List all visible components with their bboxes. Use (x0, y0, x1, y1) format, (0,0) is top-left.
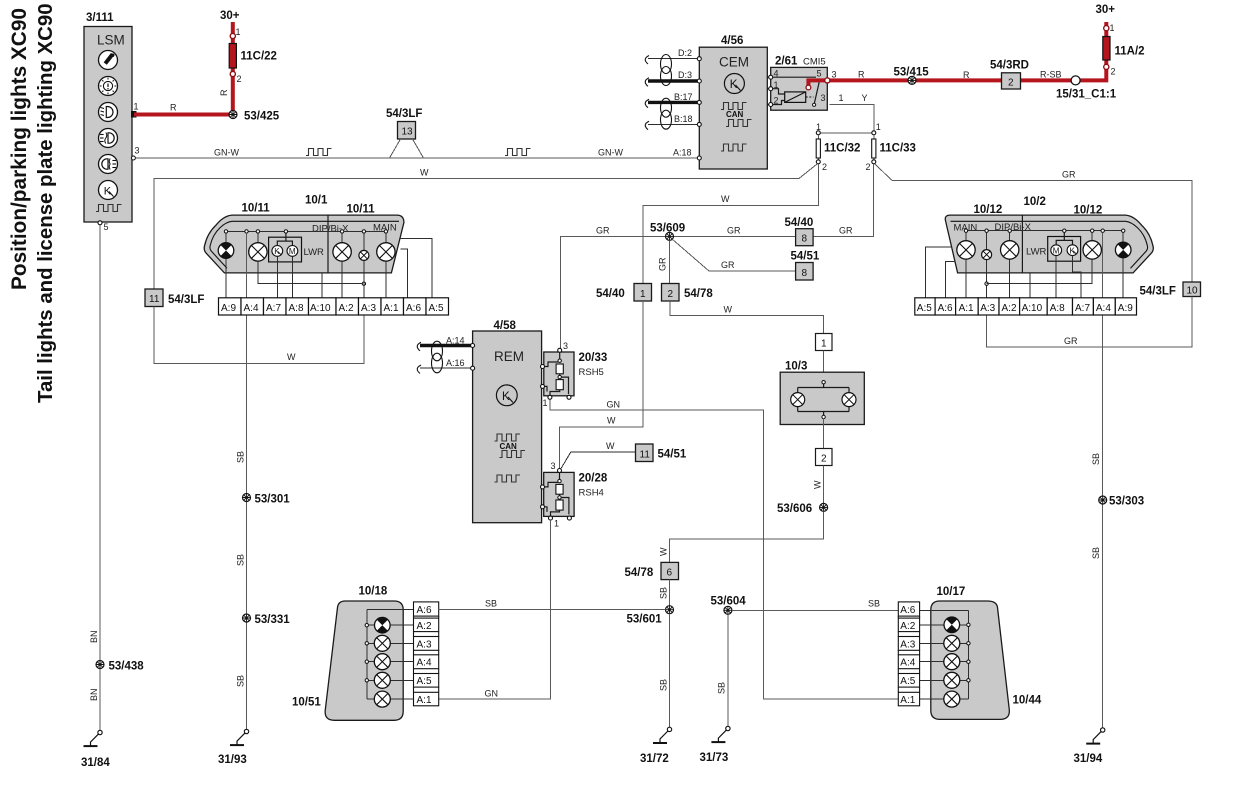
svg-text:D:3: D:3 (678, 70, 692, 80)
svg-text:R: R (219, 89, 229, 96)
LSM icon: low beam (99, 103, 118, 122)
svg-text:CMI5: CMI5 (803, 57, 826, 68)
wire GR (10 to A:3 right) (987, 297, 1192, 347)
connector 8 54/51 (791, 251, 820, 281)
svg-text:A:1: A:1 (959, 303, 974, 314)
ground 31/84 (81, 730, 110, 769)
twisted pair A:14/A:16 (417, 336, 474, 374)
supply 30+ left (220, 10, 240, 22)
svg-text:5: 5 (104, 222, 109, 232)
svg-text:53/609: 53/609 (650, 223, 685, 235)
rear left connector stack (414, 602, 439, 706)
svg-text:1: 1 (236, 27, 241, 37)
node on A:3 wire (362, 282, 365, 285)
position lamp (to A:9) (218, 233, 234, 298)
rear right connector stack (898, 602, 919, 706)
rear right lamp (A:4) (920, 654, 967, 670)
svg-text:A:5: A:5 (429, 303, 444, 314)
wire W to A:3 left (154, 307, 364, 364)
svg-text:10/2: 10/2 (1024, 196, 1046, 208)
rear left lamp (A:4) (369, 654, 414, 670)
svg-text:31/72: 31/72 (640, 753, 669, 765)
svg-text:11C/33: 11C/33 (880, 143, 916, 155)
svg-text:10/12: 10/12 (974, 204, 1003, 216)
connector 15/31_C1:1 (1056, 76, 1117, 101)
connector 2 54/3RD (990, 60, 1062, 90)
svg-text:A:9: A:9 (1118, 303, 1133, 314)
svg-text:R: R (963, 70, 970, 80)
svg-text:A:4: A:4 (900, 658, 915, 669)
connector 11 54/51 (636, 444, 687, 462)
svg-text:A:1: A:1 (417, 695, 432, 706)
svg-text:54/3RD: 54/3RD (990, 60, 1029, 72)
svg-text:GR: GR (839, 226, 853, 236)
side lamp small right (to A:3) (982, 232, 992, 297)
svg-text:BN: BN (89, 688, 99, 701)
svg-text:53/331: 53/331 (255, 614, 291, 626)
LSM icon: front fog (99, 129, 118, 148)
LSM icon: K (99, 181, 118, 200)
connector row 10/1 left (219, 298, 449, 315)
svg-text:3: 3 (563, 341, 568, 351)
svg-text:2: 2 (668, 289, 674, 300)
svg-text:W: W (813, 480, 823, 489)
wire GR (fuse 11C/33 to right rail) (875, 164, 892, 181)
lamp bus right cluster (964, 229, 1125, 232)
svg-text:10/51: 10/51 (292, 697, 321, 709)
svg-text:Position/parking lights XC90: Position/parking lights XC90 (8, 8, 31, 290)
connector 6 54/78 (625, 562, 679, 579)
svg-text:10/1: 10/1 (305, 195, 328, 207)
wire SB (splice 53/604 to rear right A:6) (732, 599, 898, 611)
svg-text:W: W (721, 194, 730, 204)
svg-text:SB: SB (659, 679, 669, 691)
splice 53/606 (777, 503, 828, 515)
fuse 11A/2 (1103, 23, 1145, 77)
svg-text:SB: SB (1091, 453, 1101, 465)
svg-text:K: K (730, 79, 738, 91)
fuse 11C/32 (816, 122, 860, 172)
svg-text:W: W (659, 547, 669, 556)
svg-text:A:3: A:3 (361, 303, 376, 314)
svg-text:11: 11 (149, 294, 160, 305)
svg-text:GN-W: GN-W (598, 148, 623, 158)
resistor unit 20/33 RSH5 (541, 341, 608, 408)
splice 53/415 (894, 67, 930, 85)
svg-text:GR: GR (1062, 170, 1076, 180)
fuse 11C/22 (229, 27, 277, 84)
wire GR (splice to connector 8 54/51) (673, 239, 796, 271)
splice 53/331 (243, 614, 291, 626)
rear left position lamp (A:2) (369, 617, 414, 633)
svg-text:B:17: B:17 (674, 92, 693, 102)
main lamp (to A:1) (377, 233, 395, 298)
wire W (fuse 11C/32 to rail) (799, 164, 817, 179)
rear left lamp (A:5) (369, 672, 414, 688)
svg-text:A:4: A:4 (1096, 303, 1111, 314)
svg-text:A:16: A:16 (446, 358, 465, 368)
control module 4/58 REM (473, 320, 542, 523)
control module 4/56 CEM (699, 35, 767, 169)
connector 11 54/3LF (145, 289, 204, 307)
svg-text:2: 2 (1111, 67, 1116, 77)
svg-text:3: 3 (551, 461, 556, 471)
svg-text:CAN: CAN (726, 110, 744, 119)
wire A:5 stub (400, 238, 432, 297)
svg-text:31/93: 31/93 (218, 754, 247, 766)
svg-text:10/18: 10/18 (359, 586, 388, 598)
svg-text:54/51: 54/51 (658, 449, 687, 461)
svg-text:GR: GR (1064, 336, 1078, 346)
svg-text:1: 1 (839, 93, 844, 103)
connector row 10/2 right (915, 298, 1137, 315)
main lamp right (to A:1) (957, 232, 975, 297)
wire A:6 stub (401, 249, 408, 298)
twisted pair D:2/D:3 (645, 48, 701, 86)
LSM pin 3 (131, 146, 139, 161)
svg-text:M: M (1053, 246, 1060, 255)
svg-text:4/58: 4/58 (494, 320, 517, 332)
rear right lamp (A:5) (920, 672, 967, 688)
lamp bus left cluster (224, 230, 387, 233)
svg-text:30+: 30+ (1096, 4, 1116, 16)
wire GN (RSH5 to rear right A:1) (550, 399, 898, 699)
headlamp unit 10/1 left (10/11 sections) (204, 195, 404, 273)
wire W (connector 1 to RSH4) (560, 301, 643, 469)
rear left lamp bus (365, 610, 368, 700)
splice 53/438 (96, 661, 144, 673)
wire GR right rail (892, 170, 1192, 283)
svg-text:A:8: A:8 (1050, 303, 1065, 314)
svg-text:A:6: A:6 (938, 303, 953, 314)
svg-text:A:3: A:3 (900, 639, 915, 650)
svg-text:53/606: 53/606 (777, 503, 812, 515)
svg-text:31/73: 31/73 (700, 752, 729, 764)
svg-text:10/11: 10/11 (347, 204, 376, 216)
svg-text:54/40: 54/40 (785, 217, 814, 229)
license plate lamp 10/3 (780, 361, 864, 425)
wire A:5 right stub (926, 247, 952, 298)
svg-text:RSH4: RSH4 (579, 488, 604, 499)
resistor unit 20/28 RSH4 (541, 461, 608, 529)
svg-text:10/3: 10/3 (785, 361, 807, 373)
splice 53/303 (1099, 496, 1144, 508)
svg-text:13: 13 (402, 127, 414, 138)
svg-text:53/303: 53/303 (1109, 496, 1144, 508)
svg-text:20/28: 20/28 (579, 473, 608, 485)
svg-text:GN: GN (607, 400, 621, 410)
svg-text:R-SB: R-SB (1040, 70, 1062, 80)
svg-text:A:4: A:4 (417, 658, 432, 669)
svg-text:REM: REM (494, 349, 524, 364)
ground 31/73 (700, 726, 731, 764)
wire GR (RSH5 to fuse 11C/33) (561, 164, 874, 349)
svg-text:D:2: D:2 (678, 48, 692, 58)
LSM icon: rear fog (99, 155, 118, 174)
connector 1 (10/3 top) (816, 334, 833, 351)
svg-text:2/61: 2/61 (775, 56, 798, 68)
wire (10/3 to connector 2) (823, 419, 825, 449)
splice 53/601 (627, 606, 674, 626)
svg-text:CAN: CAN (500, 442, 518, 451)
svg-text:53/601: 53/601 (627, 614, 663, 626)
svg-text:2: 2 (1008, 78, 1014, 89)
splice 53/425 (229, 111, 280, 123)
svg-text:M: M (289, 247, 296, 256)
rear right connector labels (900, 605, 915, 706)
connector 10 54/3LF (1140, 282, 1201, 298)
svg-text:11C/22: 11C/22 (241, 51, 277, 63)
connector 2 54/78 (662, 284, 714, 302)
wire SB (splice 53/601 to ground 31/72) (659, 614, 670, 728)
LSM icon: bulb (99, 77, 118, 96)
CEM pin A:18 (673, 148, 701, 161)
rear right lamp (A:3) (920, 635, 967, 651)
title: Tail lights and license plate lighting XC90 (35, 3, 57, 403)
svg-text:SB: SB (868, 599, 880, 609)
svg-text:2: 2 (866, 162, 871, 172)
connector 8 54/40 (785, 217, 814, 246)
svg-text:SB: SB (236, 451, 246, 463)
connector pin labels right (917, 303, 1133, 314)
svg-text:1: 1 (134, 102, 139, 112)
rear lamp unit 10/17 / 10/44 right (931, 586, 1042, 719)
splice 53/301 (243, 494, 291, 506)
connector 2 (10/3 bottom) (816, 449, 833, 466)
wire M to A:8 right (1055, 256, 1057, 298)
node on A:3 wire right (985, 282, 988, 285)
wire M to A:8 (291, 256, 293, 298)
connector pin labels left (221, 303, 444, 314)
svg-text:W: W (606, 441, 615, 451)
svg-text:54/78: 54/78 (684, 288, 713, 300)
LSM icon: position light (99, 51, 118, 70)
svg-text:1: 1 (816, 122, 821, 132)
wire R (relay to fuse 11A/2) (806, 22, 1106, 90)
svg-text:11A/2: 11A/2 (1115, 46, 1145, 58)
svg-text:A:9: A:9 (221, 303, 236, 314)
svg-text:K: K (104, 186, 112, 198)
svg-text:K: K (1070, 246, 1076, 255)
svg-text:SB: SB (236, 675, 246, 687)
svg-text:8: 8 (802, 268, 808, 279)
splice 53/609 (650, 223, 685, 241)
svg-text:20/33: 20/33 (579, 352, 608, 364)
LSM pin 5 (98, 221, 109, 232)
svg-text:54/51: 54/51 (791, 251, 820, 263)
svg-text:B:18: B:18 (674, 114, 693, 124)
svg-text:LWR: LWR (304, 247, 325, 258)
svg-text:A:1: A:1 (900, 695, 915, 706)
wire W (connector 2 to splice 53/606) (813, 466, 824, 504)
svg-text:10/11: 10/11 (242, 203, 271, 215)
svg-text:CEM: CEM (719, 55, 749, 70)
svg-text:GR: GR (721, 260, 735, 270)
svg-text:A:3: A:3 (980, 303, 995, 314)
svg-text:SB: SB (236, 554, 246, 566)
svg-text:K: K (502, 391, 510, 403)
wire SB (splice 53/604 to ground 31/73) (717, 614, 728, 726)
wire SB right (A:4 down to ground 31/94) (1091, 316, 1103, 729)
svg-text:W: W (420, 168, 429, 178)
wire R (LSM pin1 to splice 53/425) (134, 103, 233, 115)
wire SB (rear left A:6 to splice 53/601) (439, 599, 666, 610)
svg-text:6: 6 (667, 568, 673, 579)
wire W rail (154, 168, 799, 364)
wire W (RSH4 to connector 11 54/51) (561, 441, 636, 469)
svg-text:2: 2 (822, 162, 827, 172)
svg-text:54/78: 54/78 (625, 567, 654, 579)
svg-text:A:2: A:2 (417, 621, 432, 632)
relay 2/61 CMI5 (767, 56, 827, 111)
rear right bus-to-A6 wire (920, 610, 969, 612)
svg-text:W: W (724, 305, 733, 315)
LSM pin 1 (131, 102, 139, 118)
svg-text:W: W (287, 352, 296, 362)
rear right lamp bus (967, 611, 970, 699)
ground 31/94 (1074, 728, 1105, 765)
svg-text:GN-W: GN-W (214, 148, 239, 158)
svg-text:15/31_C1:1: 15/31_C1:1 (1056, 89, 1117, 101)
svg-text:A:7: A:7 (266, 303, 281, 314)
wire GR (splice to connector 2 54/78) (658, 240, 670, 283)
svg-text:LSM: LSM (97, 33, 125, 48)
svg-text:SB: SB (717, 682, 727, 694)
svg-text:54/40: 54/40 (596, 288, 625, 300)
wire W (splice 53/606 to connector 6 54/78) (659, 511, 824, 562)
svg-text:LWR: LWR (1026, 247, 1047, 258)
svg-text:A:14: A:14 (446, 336, 465, 346)
svg-text:53/301: 53/301 (255, 494, 291, 506)
wire SB (connector 6 to splice 53/601) (659, 580, 670, 606)
park lamp (to A:3 link) (249, 233, 364, 284)
svg-text:BN: BN (89, 630, 99, 643)
svg-text:10/44: 10/44 (1013, 695, 1042, 707)
wire A:4 right direct (1102, 232, 1104, 297)
rear right position lamp (A:2) (920, 617, 967, 633)
svg-text:A:2: A:2 (900, 621, 915, 632)
svg-text:A:1: A:1 (384, 303, 399, 314)
svg-text:GR: GR (596, 226, 610, 236)
svg-text:W: W (607, 416, 616, 426)
LWR unit right (M/K) (1026, 232, 1081, 261)
svg-text:A:5: A:5 (900, 676, 915, 687)
control module 3/111 LSM (84, 12, 132, 222)
svg-text:GN: GN (485, 689, 499, 699)
ground 31/72 (640, 727, 672, 765)
svg-text:GR: GR (727, 226, 741, 236)
svg-text:A:3: A:3 (417, 639, 432, 650)
wire divider to A:10 right (1029, 273, 1031, 298)
svg-text:53/438: 53/438 (109, 661, 145, 673)
wire to lamp 10/3 (823, 351, 825, 383)
dip lamp right (to A:2) (1001, 232, 1019, 297)
svg-text:DIP/Bi-X: DIP/Bi-X (995, 222, 1032, 233)
svg-text:1: 1 (554, 519, 559, 529)
svg-text:3/111: 3/111 (86, 12, 114, 24)
svg-text:53/604: 53/604 (711, 596, 747, 608)
twisted pair B:17/B:18 (645, 92, 701, 130)
svg-text:5: 5 (817, 69, 822, 79)
wire W (connector 2 54/78 to lamp 10/3) (670, 301, 824, 334)
rear left lamp (A:3) (369, 635, 414, 651)
svg-text:1: 1 (640, 289, 646, 300)
svg-text:A:10: A:10 (1022, 303, 1043, 314)
title: Position/parking lights XC90 (8, 8, 31, 290)
svg-text:SB: SB (1091, 547, 1101, 559)
rear left connector labels (417, 605, 432, 706)
wire SB (left cluster A:4 down) (236, 316, 247, 730)
wire GN-W (LSM pin3 to CEM A:18) (135, 148, 699, 159)
connector 13 54/3LF (386, 108, 424, 158)
svg-text:A:6: A:6 (417, 605, 432, 616)
svg-text:4/56: 4/56 (721, 35, 743, 47)
rear right lamp (A:1) (920, 691, 969, 707)
svg-text:10/17: 10/17 (937, 586, 966, 598)
svg-text:A:4: A:4 (244, 303, 259, 314)
wire K to A:7 (276, 256, 278, 298)
wire A:6 right stub (945, 261, 955, 297)
svg-text:10: 10 (1187, 286, 1199, 297)
wire A:4 direct (246, 233, 248, 298)
park lamp right (to A:3 link) (987, 232, 1102, 283)
svg-text:SB: SB (485, 599, 497, 609)
svg-text:31/94: 31/94 (1074, 753, 1103, 765)
splice 53/604 (711, 596, 747, 615)
svg-text:A:18: A:18 (673, 148, 692, 158)
wire K to A:7 right (1073, 256, 1082, 298)
svg-text:A:6: A:6 (406, 303, 421, 314)
wire GN (RSH4 to rear left A:1) (439, 520, 551, 699)
svg-text:31/84: 31/84 (81, 757, 110, 769)
headlamp unit 10/2 right (10/12 sections) (945, 196, 1153, 273)
svg-text:3: 3 (821, 93, 826, 103)
svg-text:R: R (858, 70, 865, 80)
svg-text:A:7: A:7 (1075, 303, 1090, 314)
position lamp right (to A:9) (1115, 232, 1131, 297)
svg-text:A:2: A:2 (339, 303, 354, 314)
svg-text:R: R (170, 103, 177, 113)
svg-text:8: 8 (802, 234, 808, 245)
svg-text:53/425: 53/425 (244, 111, 280, 123)
dip lamp (to A:2) (333, 233, 351, 298)
wire W (fuse 11C/32 to connector 1 54/40) (643, 164, 819, 284)
fuse 11C/33 (866, 122, 916, 172)
svg-text:11: 11 (640, 450, 651, 461)
svg-text:A:5: A:5 (417, 676, 432, 687)
svg-text:53/415: 53/415 (894, 67, 930, 79)
rear lamp unit 10/18 / 10/51 left (292, 586, 403, 721)
wire BN (LSM pin5 to ground 31/84) (89, 225, 100, 730)
svg-text:1: 1 (543, 398, 548, 408)
wire Y (relay to fuses) (818, 93, 874, 133)
svg-text:A:2: A:2 (1002, 303, 1017, 314)
wire divider to A:10 (321, 273, 323, 298)
supply 30+ right (1096, 4, 1116, 16)
svg-text:A:5: A:5 (917, 303, 932, 314)
svg-text:K: K (274, 247, 280, 256)
LWR unit left (K/M) (269, 233, 324, 262)
rear left bus-to-A6 wire (367, 609, 414, 611)
svg-text:30+: 30+ (220, 10, 240, 22)
svg-text:1: 1 (876, 122, 881, 132)
svg-text:3: 3 (832, 70, 837, 80)
svg-text:A:10: A:10 (310, 303, 331, 314)
svg-text:2: 2 (821, 454, 827, 465)
svg-text:RSH5: RSH5 (579, 367, 604, 378)
svg-text:SB: SB (659, 587, 669, 599)
svg-text:Tail lights and license plate: Tail lights and license plate lighting X… (35, 3, 57, 403)
